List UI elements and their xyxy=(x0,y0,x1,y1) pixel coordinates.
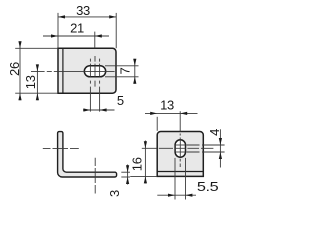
top view bend line xyxy=(62,48,64,93)
svg-text:7: 7 xyxy=(117,67,132,74)
front view body xyxy=(157,132,203,177)
dim 21 arrow right xyxy=(95,34,102,37)
dim 13 front arrow right xyxy=(180,112,187,115)
dim 5 line xyxy=(83,109,115,111)
dim 5 arrow right xyxy=(100,108,107,111)
dim 26 arrow top xyxy=(18,41,21,48)
dim 13 front extension line left xyxy=(156,117,158,131)
dim 7 line xyxy=(134,59,136,84)
dim 21 line xyxy=(43,35,109,37)
dim 5.5 arrow right xyxy=(185,194,192,197)
dim 26 extension line bottom xyxy=(15,92,58,94)
front view slot arc-center line top xyxy=(175,144,185,146)
dim 5 arrow left xyxy=(83,108,90,111)
top view slot arc-center line right xyxy=(99,66,101,77)
front view horizontal centerline xyxy=(142,147,214,149)
dim 26 extension line top xyxy=(15,47,58,49)
svg-text:4: 4 xyxy=(207,129,222,136)
svg-text:5: 5 xyxy=(117,93,124,108)
dim 13 left arrow bottom xyxy=(36,93,39,100)
dim 7 extension line bottom xyxy=(105,76,139,78)
svg-text:13: 13 xyxy=(160,97,174,112)
svg-text:16: 16 xyxy=(130,157,145,171)
svg-text:13: 13 xyxy=(23,75,38,89)
dim 5.5 extension line left xyxy=(174,158,176,200)
dim 3 arrow top xyxy=(126,165,129,172)
top view vertical centerline left xyxy=(89,59,91,112)
top view slot (obround hole) xyxy=(84,66,105,77)
dim 13 front line xyxy=(145,112,198,114)
svg-text:33: 33 xyxy=(76,3,90,18)
front view slot mid line xyxy=(175,147,185,149)
dim 26 arrow bottom xyxy=(18,93,21,100)
dim 7 extension line top xyxy=(105,65,139,67)
dim 5.5 extension line right xyxy=(185,158,187,200)
svg-text:21: 21 xyxy=(70,21,84,36)
side view vertical centerline xyxy=(94,158,96,194)
svg-text:26: 26 xyxy=(7,62,22,76)
svg-text:5.5: 5.5 xyxy=(197,179,219,194)
dim 4 arrow bottom xyxy=(219,152,222,159)
front view slot vertical line xyxy=(179,140,181,157)
dim 33 extension line left xyxy=(57,13,59,48)
dim 3 arrow bottom xyxy=(126,177,129,184)
front view slot (obround hole) xyxy=(175,140,185,157)
front view slot arc-center line bottom xyxy=(175,151,185,153)
top view plate body xyxy=(58,48,116,93)
dim 3 line xyxy=(127,165,129,185)
front view vertical centerline xyxy=(179,111,181,167)
side view L profile xyxy=(58,132,117,177)
dim 33 extension line right xyxy=(115,13,117,48)
dim 4 extension line top xyxy=(187,144,225,146)
dim 13 front arrow left xyxy=(150,112,157,115)
top view vertical centerline right xyxy=(99,59,101,112)
dim 4 arrow top xyxy=(219,138,222,145)
dim 33 arrow right xyxy=(109,15,116,18)
dim 16 arrow bottom xyxy=(144,176,147,183)
dim 33 arrow left xyxy=(58,15,65,18)
dim 13 left line xyxy=(36,64,38,100)
dim 21 arrow left xyxy=(51,34,58,37)
dim 7 arrow bottom xyxy=(133,77,136,84)
top view horizontal centerline xyxy=(31,70,115,72)
dim 33 line xyxy=(58,16,116,18)
dim 5.5 arrow left xyxy=(168,194,175,197)
dim 5.5 line xyxy=(157,194,196,196)
dim 16 arrow top xyxy=(144,141,147,148)
svg-text:3: 3 xyxy=(107,190,122,197)
dim 3 extension line bottom xyxy=(121,176,130,178)
dim 7 arrow top xyxy=(133,59,136,66)
dim 21 extension line right xyxy=(94,32,96,49)
side view horizontal centerline xyxy=(43,147,79,149)
dim 4 extension line bottom xyxy=(187,151,225,153)
front view bend line xyxy=(157,171,203,173)
dim 3 extension line top xyxy=(121,171,130,173)
dim 4 line xyxy=(219,129,221,167)
top view vertical centerline middle xyxy=(94,56,96,87)
dim 26 line xyxy=(19,41,21,100)
dim 16 line xyxy=(144,141,146,184)
top view slot arc-center line left xyxy=(89,66,91,77)
top view slot mid line xyxy=(94,66,96,77)
dim 13 left arrow top xyxy=(36,64,39,71)
dim 16 extension line bottom xyxy=(130,175,157,177)
